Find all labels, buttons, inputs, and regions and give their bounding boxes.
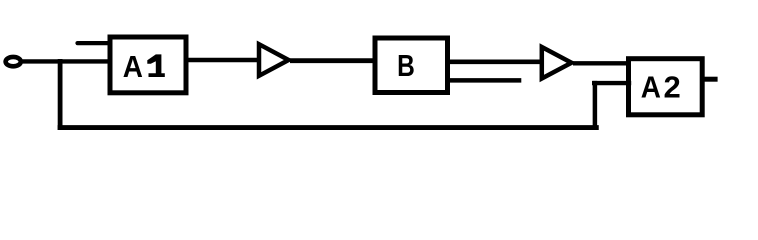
svg-text:2: 2 xyxy=(663,70,680,105)
wire: top stub into A1 xyxy=(78,41,112,45)
wire: feedback riser right xyxy=(593,83,598,128)
buffer amplifier 1 xyxy=(259,44,289,76)
wire: feedback horizontal from A2 left xyxy=(594,81,629,85)
svg-text:A: A xyxy=(641,70,661,105)
wire: input line to A1 xyxy=(21,59,111,63)
wire: feedback bottom run xyxy=(60,125,596,130)
wire: feedback riser left / input junction xyxy=(58,61,63,127)
input terminal xyxy=(6,57,21,66)
svg-text:A: A xyxy=(123,50,143,85)
label A1: digit 1 xyxy=(147,54,165,77)
wire: B top output to buffer 2 xyxy=(448,59,544,64)
block A2 xyxy=(629,59,703,115)
wire: buffer 2 to A2 xyxy=(573,61,629,65)
block A1 xyxy=(110,37,186,93)
wire: A1 to buffer 1 xyxy=(186,58,259,63)
block B xyxy=(375,38,448,93)
wire: buffer 1 to B xyxy=(290,58,376,63)
buffer amplifier 2 xyxy=(542,47,572,79)
wire: B bottom output stub xyxy=(448,78,522,83)
wire: A2 right stub xyxy=(702,77,718,82)
svg-text:B: B xyxy=(397,48,415,82)
